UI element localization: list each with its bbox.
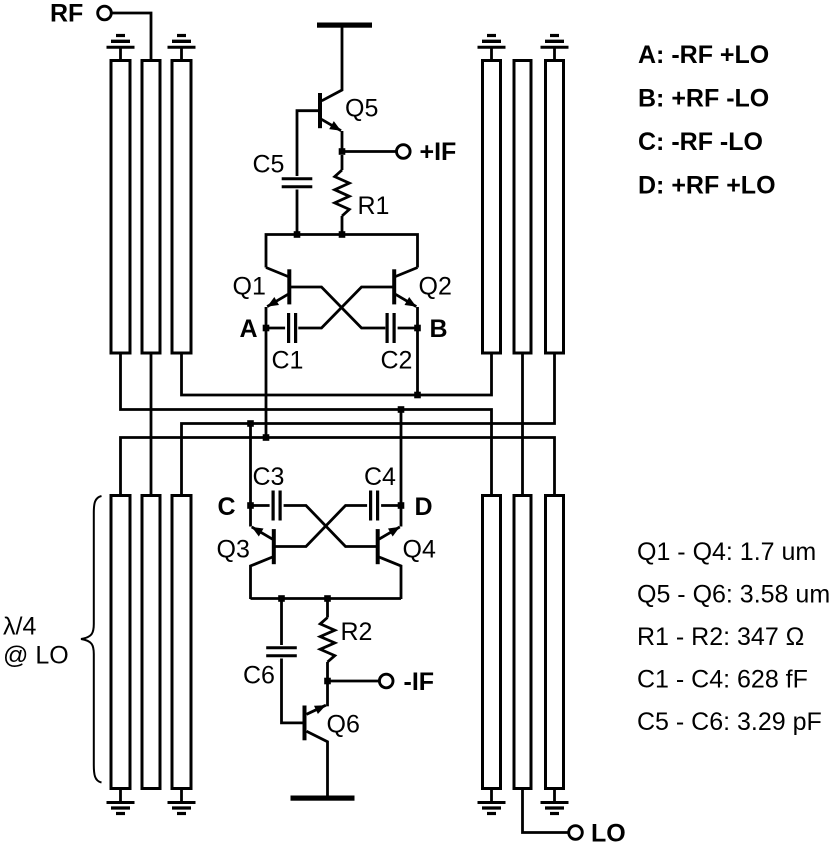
svg-text:Q4: Q4	[403, 536, 436, 564]
svg-text:C1 - C4: 628 fF: C1 - C4: 628 fF	[637, 666, 808, 694]
wire node C to C3	[251, 504, 270, 507]
wire C6 branch	[280, 599, 283, 646]
terminal RF	[98, 6, 112, 20]
svg-text:RF: RF	[50, 0, 83, 28]
transistor Q2	[392, 269, 396, 304]
terminal LO	[569, 826, 583, 840]
ground (bottom of lower-right line 3)	[553, 789, 556, 803]
wire upper-left line2 to lower-left line2	[150, 353, 153, 496]
terminal +IF	[397, 145, 411, 159]
ground (top of upper-left line 3)	[180, 47, 183, 61]
transmission line TL12 lower-right	[546, 496, 564, 789]
wire Q3 base cross-couple to C4	[275, 506, 367, 547]
svg-text:C3: C3	[253, 463, 285, 491]
junction C/W3	[247, 420, 254, 427]
ground bar (bottom)	[291, 796, 355, 801]
svg-text:R1: R1	[358, 192, 390, 220]
wire lower frame (collector rails Q3/Q4)	[251, 597, 402, 600]
wire Q4 collector to bottom frame	[379, 557, 401, 599]
node junction C5/frame	[294, 231, 301, 238]
svg-text:C6: C6	[243, 662, 275, 690]
svg-text:C: C	[218, 493, 236, 521]
wire C5 to frame top	[296, 190, 299, 235]
transistor Q1	[287, 269, 291, 304]
svg-text:+IF: +IF	[420, 138, 457, 166]
transmission line TL8 lower-left	[142, 496, 160, 789]
capacitor C5	[282, 177, 313, 180]
wire node B down to W1	[416, 328, 419, 395]
wire node C column from W3	[249, 424, 252, 527]
capacitor C4	[369, 491, 372, 521]
capacitor C3	[272, 491, 275, 521]
node junction R1/frame	[339, 231, 346, 238]
transmission line TL1 upper-left	[111, 61, 130, 354]
wire node A down to W4	[265, 328, 268, 438]
transistor Q3	[272, 529, 276, 564]
junction D/W2	[398, 406, 405, 413]
wire upper-right line2 to lower-right line2	[521, 353, 524, 496]
wire Q3 collector to bottom frame	[251, 557, 273, 599]
wire to -IF terminal	[328, 680, 380, 683]
svg-text:C5 - C6: 3.29 pF: C5 - C6: 3.29 pF	[637, 708, 822, 736]
svg-text:Q1: Q1	[233, 273, 266, 301]
wire C4 to node D	[381, 504, 401, 507]
svg-text:B: B	[430, 315, 448, 343]
wire lower-right line 2 to LO	[523, 789, 569, 833]
wire Q5 base to C5	[297, 111, 318, 176]
resistor R2	[326, 599, 329, 618]
svg-text:R2: R2	[341, 618, 373, 646]
svg-text:C1: C1	[272, 347, 304, 375]
wire C2 to node B	[398, 327, 418, 330]
resistor R1	[341, 155, 344, 170]
wire node A to C1	[266, 327, 285, 330]
svg-text:Q5: Q5	[345, 95, 378, 123]
wire W1: upper-left line3 to upper-right line1 (node B row)	[182, 353, 492, 395]
svg-text:D: D	[415, 493, 433, 521]
svg-text:Q3: Q3	[217, 536, 250, 564]
transistor Q4	[376, 529, 380, 564]
brace lambda/4	[81, 496, 102, 783]
wire RF to upper-left line 2	[111, 13, 151, 61]
capacitor C1	[287, 313, 290, 343]
svg-text:Q5 - Q6: 3.58 um: Q5 - Q6: 3.58 um	[637, 581, 830, 609]
capacitor C6	[266, 646, 297, 649]
svg-text:A: -RF +LO: A: -RF +LO	[638, 41, 769, 69]
transmission line TL3 upper-left	[172, 61, 191, 354]
ground (top of upper-right line 1)	[490, 47, 493, 61]
transmission line TL9 lower-left	[172, 496, 191, 789]
node C	[247, 502, 254, 509]
wire W4: lower-left line1 to lower-right line3 (node A row)	[121, 438, 555, 496]
wire W3: lower-left line3 to upper-right line3 (node C row)	[182, 353, 555, 496]
svg-text:-IF: -IF	[404, 668, 435, 696]
transmission line TL6 upper-right	[546, 61, 564, 354]
wire Q1 emitter to node A	[265, 307, 268, 328]
junction R2/frame	[324, 595, 331, 602]
transmission line TL5 upper-right	[514, 61, 531, 354]
wire Q1 base cross-couple to C2	[291, 287, 386, 328]
transistor Q6	[303, 706, 307, 741]
svg-text:C2: C2	[381, 347, 413, 375]
terminal -IF	[379, 674, 393, 688]
ground (top of upper-left line 1)	[119, 47, 122, 61]
svg-text:@ LO: @ LO	[3, 642, 69, 670]
transmission line TL2 upper-left	[142, 61, 160, 354]
svg-text:R1 - R2: 347 Ω: R1 - R2: 347 Ω	[637, 623, 804, 651]
junction A/W4	[263, 434, 270, 441]
wire Q4 base cross-couple to C3	[284, 506, 377, 547]
capacitor C2	[386, 313, 389, 343]
svg-text:Q2: Q2	[419, 273, 452, 301]
svg-text:A: A	[240, 315, 258, 343]
wire W2: upper-left line1 to lower-right line1 (node D row)	[121, 353, 492, 496]
wire Q2 base cross-couple to C1	[298, 287, 393, 328]
ground (bottom of lower-left line 3)	[180, 789, 183, 803]
svg-text:B: +RF -LO: B: +RF -LO	[638, 85, 769, 113]
wire upper frame (collector rails Q1/Q2)	[266, 235, 418, 268]
svg-text:C: -RF -LO: C: -RF -LO	[638, 128, 763, 156]
svg-text:C5: C5	[253, 151, 285, 179]
wire node D column from W2	[400, 410, 403, 527]
junction C6/frame	[278, 595, 285, 602]
wire C6 to Q6 base	[282, 659, 303, 723]
node -IF junction	[324, 678, 331, 685]
svg-text:λ/4: λ/4	[3, 613, 36, 641]
ground (bottom of lower-right line 1)	[490, 789, 493, 803]
transmission line TL10 lower-right	[483, 496, 501, 789]
wire Q5 emitter to +IF node	[341, 131, 344, 152]
svg-text:Q6: Q6	[327, 711, 360, 739]
ground (bottom of lower-left line 1)	[119, 789, 122, 803]
supply rail bar (top)	[317, 23, 372, 28]
svg-text:Q1 - Q4: 1.7 um: Q1 - Q4: 1.7 um	[637, 538, 816, 566]
junction B/W1	[414, 392, 421, 399]
transmission line TL7 lower-left	[111, 496, 130, 789]
wire to +IF terminal	[342, 150, 396, 153]
node D	[398, 502, 405, 509]
wire Q6 collector to ground bar	[307, 731, 328, 795]
ground (top of upper-right line 3)	[553, 47, 556, 61]
transistor Q5	[318, 93, 322, 128]
svg-text:D: +RF +LO: D: +RF +LO	[638, 172, 776, 200]
node B	[414, 325, 421, 332]
wire supply to Q5 collector	[322, 28, 342, 101]
svg-text:C4: C4	[364, 463, 396, 491]
node +IF junction	[339, 148, 346, 155]
transmission line TL4 upper-right	[483, 61, 501, 354]
svg-text:LO: LO	[591, 820, 626, 846]
transmission line TL11 lower-right	[514, 496, 531, 789]
wire Q6 emitter to -IF node	[326, 681, 329, 706]
wire Q2 emitter to node B	[416, 307, 419, 328]
node A	[263, 325, 270, 332]
